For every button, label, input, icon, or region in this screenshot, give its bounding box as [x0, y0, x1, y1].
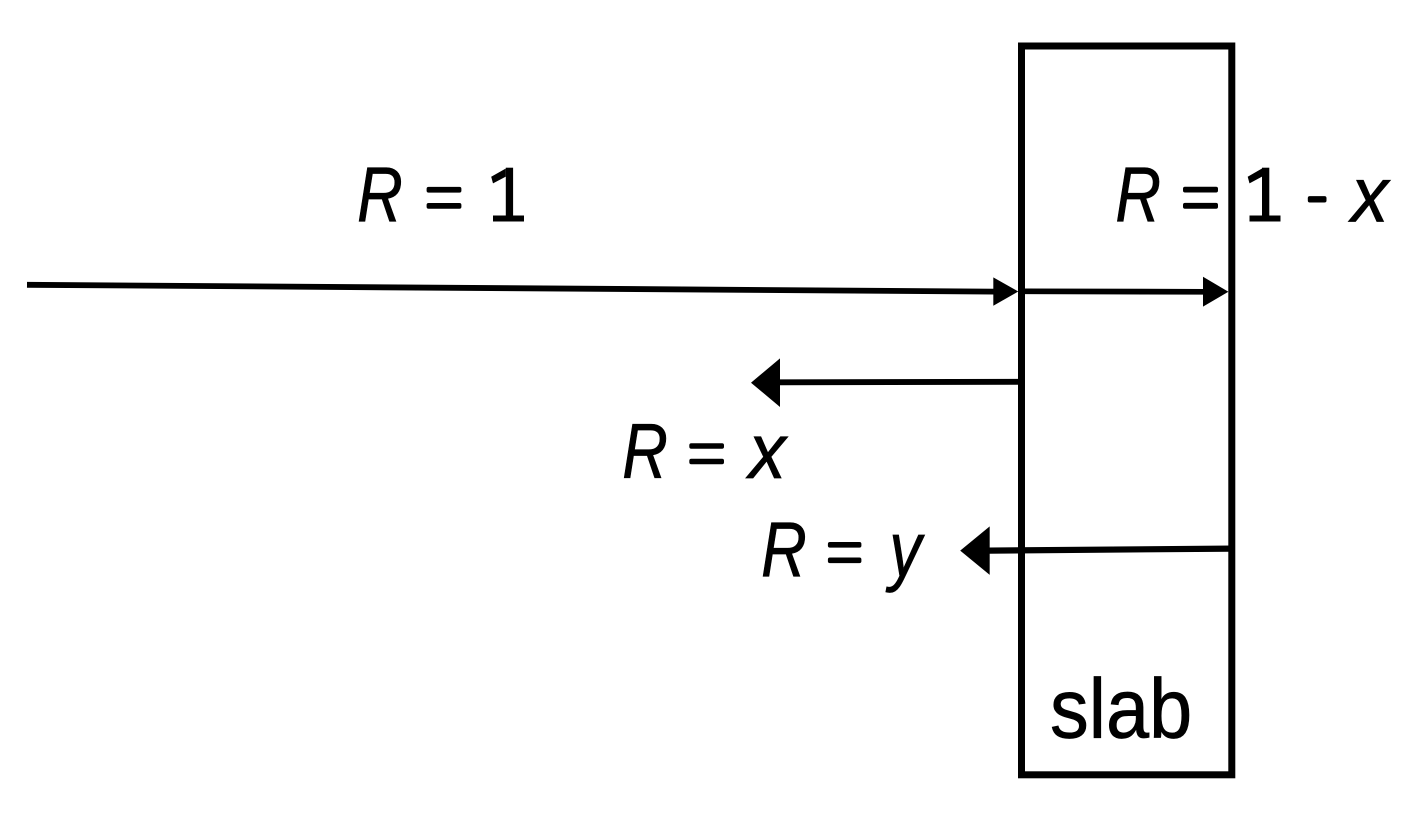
wire: reflected ray line R=x — [779, 379, 1021, 385]
svg-text:slab: slab — [1050, 663, 1192, 757]
svg-text:x: x — [745, 408, 789, 495]
svg-text:R: R — [1115, 152, 1161, 239]
label 1 (of R = 1) — [491, 168, 524, 222]
svg-text:R: R — [761, 507, 807, 594]
label = (of R = x) — [689, 443, 724, 464]
svg-text:x: x — [1347, 152, 1391, 239]
arrowhead ray R=y — [960, 526, 990, 575]
wire: transmitted ray line inside slab — [1024, 288, 1204, 294]
label - (of R = 1 - x) — [1308, 196, 1327, 202]
label = (of R = 1 - x) — [1183, 187, 1218, 209]
label = (of R = y) — [828, 542, 862, 563]
svg-text:y: y — [885, 507, 925, 594]
slab rectangle — [1022, 46, 1232, 775]
arrowhead transmitted ray — [1203, 277, 1228, 307]
wire: incident ray line R=1 — [27, 285, 994, 292]
svg-text:R: R — [357, 152, 403, 239]
label 1 (of R = 1 - x) — [1248, 168, 1281, 222]
wire: back-surface reflected ray line R=y — [989, 549, 1232, 551]
arrowhead reflected ray R=x — [751, 358, 780, 407]
arrowhead incident ray — [993, 277, 1018, 305]
label = (of R = 1) — [427, 187, 462, 209]
svg-text:R: R — [622, 409, 668, 496]
